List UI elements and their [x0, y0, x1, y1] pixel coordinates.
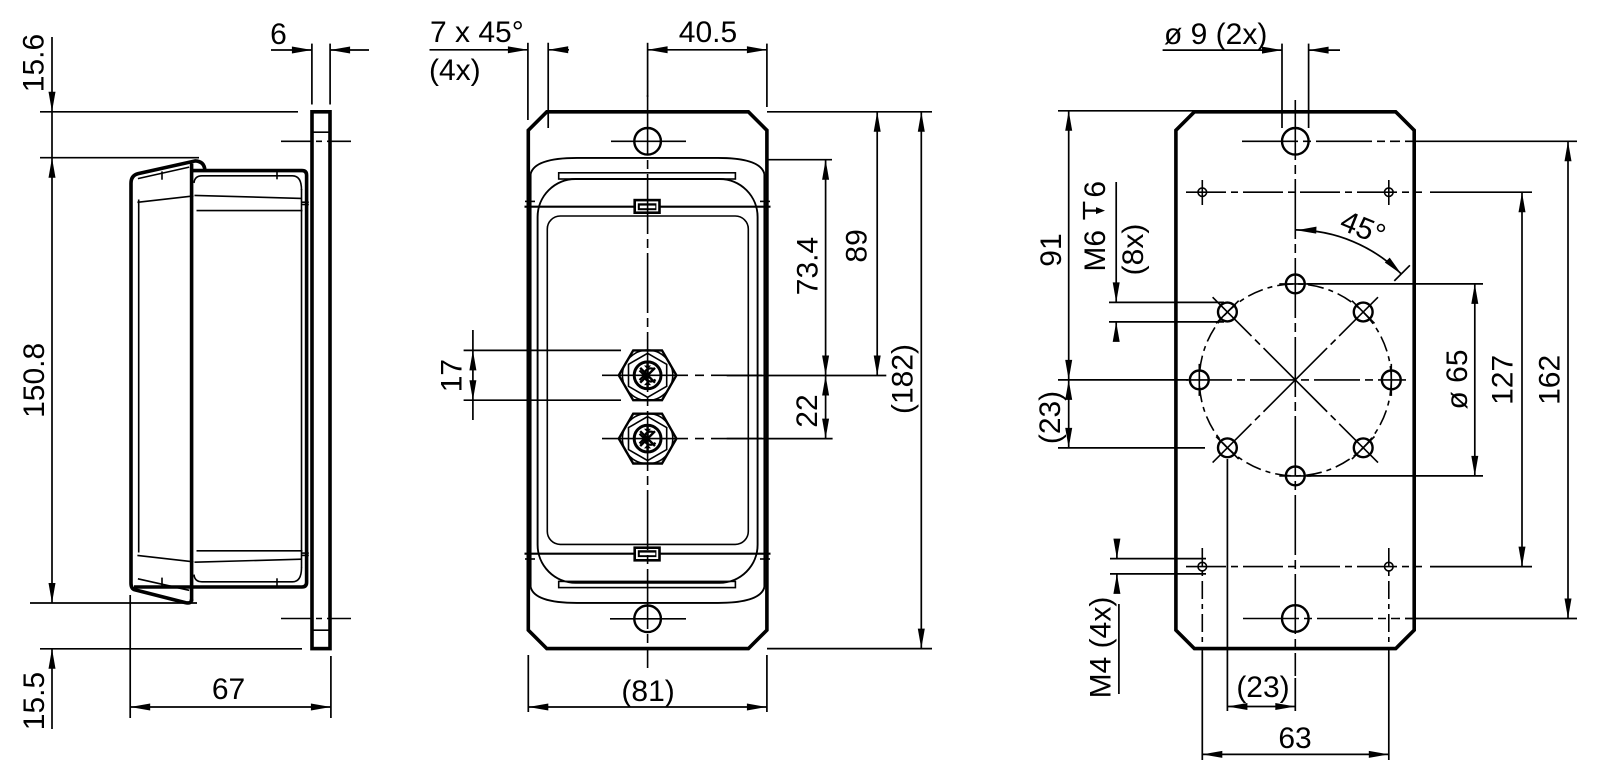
dimension (81) — [527, 655, 529, 712]
svg-text:(182): (182) — [887, 344, 920, 414]
body bottom arc — [531, 587, 765, 603]
lid outline rounded rect — [538, 179, 758, 583]
svg-text:17: 17 — [436, 359, 469, 392]
M6 hole SE with cross tick — [1354, 438, 1373, 457]
horizontal centerline through bolt circle — [1186, 379, 1406, 381]
seam line bottom — [525, 553, 771, 555]
cover bottom inner line — [138, 579, 189, 591]
dimension (23) bottom — [1227, 706, 1295, 708]
M4 hole top-right — [1385, 188, 1394, 197]
bolt circle ref circle — [1199, 284, 1391, 476]
dimension ø65 — [1474, 284, 1476, 476]
housing top tick — [276, 172, 278, 179]
connector centerline lower — [602, 438, 762, 440]
seam line top stubs — [525, 200, 535, 202]
dimension 45 degrees arc — [1296, 230, 1402, 274]
housing seam stubs right — [302, 201, 309, 203]
flange plate outline (rear view) — [1176, 112, 1414, 649]
M4 row centerline top — [1186, 191, 1422, 193]
vertical dimension line chain x=52 — [51, 37, 53, 603]
svg-text:ø 65: ø 65 — [1441, 349, 1474, 409]
centerline ext below flange — [1294, 678, 1296, 711]
svg-text:ø 9 (2x): ø 9 (2x) — [1164, 18, 1267, 51]
M4 column centerline left — [1201, 548, 1203, 652]
arrow down at 603 — [49, 583, 56, 603]
housing inner right edge — [301, 189, 303, 568]
label 15.6 — [18, 34, 51, 92]
bottom rib strip — [559, 581, 736, 587]
label M4 (4x) with leader — [1118, 604, 1120, 694]
vertical centerline rear view — [1294, 100, 1296, 676]
svg-text:15.6: 15.6 — [18, 34, 51, 92]
extension line y=648.8 (flange bottom) — [40, 648, 302, 650]
svg-text:15.5: 15.5 — [18, 672, 51, 730]
svg-text:(23): (23) — [1236, 671, 1289, 704]
flange plate (side view) — [312, 112, 330, 649]
vertical centerline of front view — [647, 95, 649, 668]
cover inner left wall — [138, 200, 140, 553]
dimension 17 — [464, 349, 621, 351]
flange plate outline (front view) — [528, 112, 767, 649]
extension lines right side — [1307, 283, 1483, 285]
cover/body joint vertical edge — [190, 164, 194, 602]
M4 hole bottom-left — [1198, 562, 1207, 571]
extension lines right of middle view — [767, 111, 932, 113]
dimension (23) upper-left — [1058, 447, 1205, 449]
label 15.5 — [18, 672, 51, 730]
rear cover shell outline (side view) — [131, 161, 205, 603]
connector M12 lower — [619, 413, 677, 463]
inner face rounded rect — [547, 216, 748, 544]
M4 row centerline bottom — [1186, 566, 1422, 568]
M6 hole N — [1286, 275, 1305, 294]
flange chamfer line bottom — [312, 629, 330, 631]
label 45 — [1336, 205, 1390, 253]
M4 column centerline right — [1388, 548, 1390, 652]
label 150.8 — [18, 343, 51, 418]
hole ø9 bottom — [1282, 605, 1309, 632]
svg-text:M6: M6 — [1079, 230, 1112, 272]
svg-text:(81): (81) — [621, 675, 674, 708]
M6 hole SW with cross tick — [1218, 438, 1237, 457]
extension line from SW hole down — [1226, 459, 1228, 711]
body side edges behind flange — [530, 174, 532, 587]
dimension 127 — [1521, 192, 1523, 566]
svg-text:89: 89 — [840, 229, 873, 262]
svg-text:63: 63 — [1278, 722, 1311, 755]
dimension 67 — [129, 595, 131, 718]
diagonal centerline NW-SE — [1213, 297, 1378, 462]
dimension 6 arrow lines — [271, 49, 312, 51]
flange chamfer line top — [312, 131, 330, 133]
housing groove line lower — [197, 550, 303, 552]
svg-text:(23): (23) — [1034, 391, 1067, 444]
M6 hole NW with cross tick — [1218, 303, 1237, 322]
M4 hole bottom-right — [1385, 562, 1394, 571]
diagonal centerline NE-SW — [1213, 297, 1378, 462]
bottom mounting hole — [634, 606, 661, 633]
arrow up at 648.8 — [49, 649, 56, 669]
dimension M4: lines — [1110, 558, 1206, 560]
dimension 6: extension lines above flange — [311, 44, 313, 105]
dimension ø9 leader and arrows — [1163, 49, 1282, 51]
arrow down at 111.8 — [49, 92, 56, 112]
svg-text:67: 67 — [212, 673, 245, 706]
cover inner slant upper — [137, 196, 193, 202]
svg-text:6: 6 — [1079, 181, 1112, 198]
svg-text:162: 162 — [1534, 355, 1567, 405]
dimension 40.5 — [647, 43, 649, 97]
dimension 22 — [825, 376, 827, 439]
M6 hole E — [1382, 371, 1401, 390]
dimension ø9: extension lines — [1281, 44, 1283, 128]
svg-text:150.8: 150.8 — [18, 343, 51, 418]
svg-text:7 x 45°: 7 x 45° — [430, 16, 524, 49]
cover inner slant lower — [137, 555, 193, 561]
cover lid tick — [161, 171, 163, 179]
svg-text:127: 127 — [1487, 355, 1520, 405]
dimension 7x45 extension lines — [527, 43, 529, 120]
dimension 7x45 leader and arrows — [430, 49, 528, 51]
cover lid inner slant line — [138, 167, 189, 179]
extension line y=603 (body bottom) — [30, 602, 197, 604]
svg-text:M4 (4x): M4 (4x) — [1084, 597, 1117, 699]
top rib strip — [559, 173, 736, 179]
dimension 162 — [1567, 141, 1569, 618]
housing seam line upper — [195, 195, 302, 198]
dimension 91 — [1058, 110, 1194, 112]
M4 hole top-left — [1198, 188, 1207, 197]
housing groove line upper — [197, 210, 303, 212]
svg-text:(8x): (8x) — [1117, 224, 1150, 276]
latch bottom — [635, 548, 660, 561]
housing inner top contour — [194, 176, 302, 190]
extension line y=157.7 (body top) — [40, 157, 199, 159]
dimension 73.4 — [825, 160, 827, 376]
housing seam line lower — [195, 559, 302, 562]
centerline upper hole (side) — [281, 140, 351, 142]
extension line y=111.8 (15.6) — [40, 111, 298, 113]
dimension M6 depth: lines — [1109, 301, 1224, 303]
dimension 89 — [876, 112, 878, 376]
connector M12 upper — [619, 350, 677, 400]
hole ø9 top — [1282, 128, 1309, 155]
seam line top — [525, 206, 771, 208]
svg-text:40.5: 40.5 — [679, 16, 737, 49]
centerline lower hole (side) — [281, 618, 351, 620]
latch top — [635, 200, 660, 213]
M6 hole S — [1286, 467, 1305, 486]
M6 hole NE with cross tick — [1354, 303, 1373, 322]
housing inner bottom contour — [194, 568, 302, 582]
svg-text:22: 22 — [791, 394, 824, 427]
svg-text:6: 6 — [270, 18, 287, 51]
label M6 depth 6 (8x) — [1079, 181, 1112, 272]
seam line bottom stubs — [525, 558, 535, 560]
dimension 63 — [1201, 652, 1203, 760]
front housing outline (side view) — [134, 171, 307, 587]
svg-text:(4x): (4x) — [429, 54, 481, 87]
top mounting hole — [634, 128, 661, 155]
svg-text:91: 91 — [1035, 233, 1068, 266]
svg-text:73.4: 73.4 — [791, 237, 824, 295]
radial tick at 45 deg — [1394, 265, 1410, 281]
connector centerline upper — [602, 374, 762, 376]
M6 hole W — [1190, 371, 1209, 390]
dimension (182) — [920, 112, 922, 649]
cover bottom tick — [161, 578, 163, 586]
arrow up at 157.7 — [49, 158, 56, 178]
body top arc — [531, 158, 765, 174]
